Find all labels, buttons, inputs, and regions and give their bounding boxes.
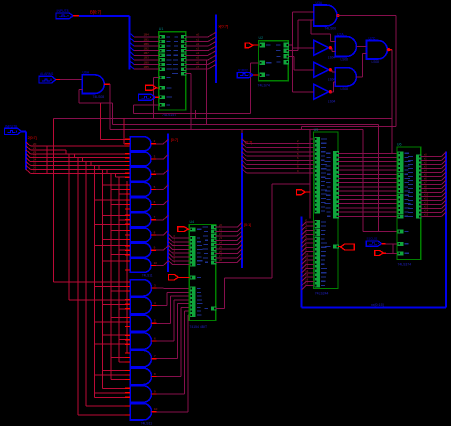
svg-text:y7: y7 — [219, 254, 222, 258]
label S[0:15] on bottom bus — [371, 303, 384, 307]
wire U1 pin to net n1 — [134, 105, 159, 114]
IC U1 74LS157 body and pins — [159, 32, 187, 110]
svg-text:S1R02: S1R02 — [238, 68, 248, 72]
label 74LS374 value — [398, 263, 412, 267]
svg-text:s14: s14 — [424, 208, 429, 212]
wire U1 pin out to net n4 — [186, 74, 191, 130]
svg-text:74LS11: 74LS11 — [142, 274, 153, 278]
wire net n1 horizontal — [134, 113, 251, 115]
label U6A — [83, 71, 90, 75]
wires U1 outputs to bus x[0:7] taps — [186, 32, 216, 69]
wire g1 input2 from net n2 — [124, 119, 130, 144]
wires upper gate outputs to bus taps — [151, 139, 168, 265]
wire U1 enable pin to net n2 — [154, 78, 159, 119]
wire g1 input from AND1 chain — [100, 103, 130, 139]
svg-text:1B4: 1B4 — [144, 33, 150, 37]
svg-text:B[0:7]: B[0:7] — [90, 9, 101, 14]
wire mesh horizontal branches to gate inputs — [94, 185, 130, 393]
wire ALARM port stub — [56, 79, 61, 81]
svg-text:1B0: 1B0 — [144, 60, 150, 64]
svg-text:ALARM1: ALARM1 — [40, 72, 54, 76]
svg-text:U5: U5 — [314, 128, 319, 132]
svg-text:y0: y0 — [219, 223, 222, 227]
label U7C — [369, 37, 376, 41]
label 74LS11 under gate column — [141, 422, 153, 426]
label y[0:7] top — [245, 141, 252, 145]
label above U6 clock port — [367, 237, 378, 241]
label 74LS244 value — [315, 292, 329, 296]
svg-text:x6: x6 — [196, 60, 200, 64]
label U4 — [190, 220, 195, 224]
svg-text:s11: s11 — [424, 196, 429, 200]
svg-text:x2: x2 — [196, 42, 200, 46]
wire to AND1 input 1 — [60, 79, 82, 81]
wire fan tie vertical — [46, 146, 48, 173]
svg-text:U6: U6 — [397, 142, 402, 146]
svg-text:LS08: LS08 — [341, 57, 349, 61]
wire vertical U2 Q2 to U3A input2 — [288, 20, 298, 51]
svg-text:27: 27 — [33, 169, 37, 173]
port red at U6 OC — [375, 250, 397, 255]
wire U8C input from vertical — [293, 91, 314, 93]
svg-text:x[0:7]: x[0:7] — [218, 23, 228, 28]
svg-text:y8: y8 — [219, 258, 222, 262]
svg-text:1B1: 1B1 — [144, 37, 150, 41]
svg-text:U3A: U3A — [316, 1, 323, 5]
label 74LS04 under U8B — [328, 78, 336, 82]
bus x[0:7] vertical — [215, 15, 217, 84]
svg-text:y2: y2 — [219, 232, 222, 236]
svg-text:74LS374: 74LS374 — [398, 263, 412, 267]
wire U7B input2 from U8C — [330, 82, 335, 92]
bus S[0:15] right vertical — [445, 151, 447, 307]
wire U7A output to U7C input1 — [356, 46, 366, 48]
bus y[0:7] vertical (middle) — [241, 133, 243, 268]
label 74LS04 under U8C — [328, 100, 336, 104]
svg-text:1B7: 1B7 — [144, 51, 150, 55]
wire net n4 feeds bus y top — [241, 130, 243, 133]
wires U6 outputs to bus S taps — [421, 152, 446, 216]
label 74LS00 under U3A — [325, 27, 337, 31]
wire U7C output to net n2 — [387, 50, 392, 154]
svg-text:10: 10 — [154, 407, 158, 411]
wire U3A input1 — [293, 11, 314, 13]
svg-text:U6A: U6A — [83, 71, 90, 75]
label x[0:7] — [218, 23, 228, 28]
svg-text:U7C: U7C — [369, 37, 376, 41]
inverter U8C — [314, 84, 332, 99]
svg-text:x0: x0 — [196, 33, 200, 37]
IC U4 74LS138 body and pins — [189, 224, 216, 320]
wire port SW1 stub — [73, 15, 79, 17]
svg-text:U4: U4 — [190, 220, 195, 224]
wire net n1 rise to U2 pin — [251, 63, 259, 114]
svg-text:x3: x3 — [196, 47, 200, 51]
svg-text:10: 10 — [154, 261, 158, 265]
port red at U4 gate pin — [168, 274, 189, 280]
bus B[0:7] vertical drop — [129, 16, 131, 70]
bus taps g0-g7 into U4 select inputs — [168, 234, 189, 265]
port red at U5 OE pin — [297, 190, 311, 195]
and gate U7B — [335, 68, 356, 87]
port red at U5 output pin (right) — [338, 244, 354, 250]
svg-text:74LS74: 74LS74 — [258, 84, 270, 88]
label B[0:7] — [90, 9, 101, 14]
svg-text:y1: y1 — [219, 227, 222, 231]
label U7A — [337, 33, 344, 37]
wire SET port stub — [253, 74, 259, 76]
and-gate column lower group U11A-U11H — [130, 280, 151, 420]
svg-text:1B3: 1B3 — [144, 56, 150, 60]
bus g[0:7] vertical (gate outputs) — [167, 134, 169, 273]
wire net n4 from AND1 output — [109, 84, 111, 129]
and gate U7C — [367, 41, 391, 60]
label U2 — [259, 36, 264, 40]
label U6 — [397, 142, 402, 146]
wire branch n3 to U6 special pin1 — [363, 125, 397, 232]
label 74LS11 under gate g9 — [142, 274, 153, 278]
wire U3A input2 — [298, 19, 314, 21]
wire U8B input — [288, 56, 314, 69]
wire U3A output long net — [337, 16, 396, 127]
label 74LS04 under U8A — [328, 56, 336, 60]
label U1 — [159, 27, 164, 31]
bus taps fan-out wires 2.0-2.7 with staircase jogs — [26, 142, 130, 177]
label 2[0:7] — [28, 136, 37, 140]
svg-text:LS08: LS08 — [372, 60, 380, 64]
wire net n4 horizontal — [110, 129, 363, 131]
svg-text:x5: x5 — [196, 56, 200, 60]
svg-text:U2: U2 — [259, 36, 264, 40]
wire U7B output to U7C input2 — [356, 54, 366, 77]
svg-text:x1: x1 — [196, 37, 200, 41]
label 74LS74 value — [258, 84, 270, 88]
label above DIP port — [5, 124, 17, 128]
bus taps S0-S15 into U5 lower inputs — [302, 218, 314, 290]
IC U2 74LS74 body and pins — [259, 41, 290, 81]
and-gate U6A — [82, 75, 104, 94]
svg-text:INPUT8: INPUT8 — [5, 124, 17, 128]
svg-text:2[0:7]: 2[0:7] — [28, 136, 37, 140]
svg-text:INPUT8: INPUT8 — [57, 9, 69, 13]
port blue at U1 strobe pin — [139, 94, 159, 100]
and-gate column upper group U10A-U10H — [130, 137, 151, 273]
wire net n2 drop from U1 bottom — [195, 110, 197, 119]
inverter U8B — [314, 62, 332, 77]
wire U2 D-pin to net n1 — [251, 62, 259, 64]
and gate U7A — [335, 37, 356, 57]
nand gate U3A — [314, 5, 340, 26]
wire net n2 horizontal — [54, 118, 392, 120]
label above port SW1 — [57, 9, 69, 13]
label 74LS08 under U7C — [372, 60, 380, 64]
svg-text:y6: y6 — [219, 249, 222, 253]
svg-text:74LS11: 74LS11 — [141, 422, 153, 426]
port SW1 input (top left) — [56, 13, 73, 19]
svg-text:x4: x4 — [196, 51, 200, 55]
label 74LS08 under U7A — [341, 57, 349, 61]
svg-text:74LS244: 74LS244 — [315, 292, 329, 296]
svg-text:1B5: 1B5 — [144, 65, 150, 69]
wire U7A input1 from U3A net — [311, 20, 335, 42]
svg-text:U1: U1 — [159, 27, 164, 31]
label U5 — [314, 128, 319, 132]
label U3A — [316, 1, 323, 5]
port red CLK input — [245, 43, 258, 48]
label y[0:7] bottom — [244, 223, 251, 227]
svg-text:[0:1]: [0:1] — [244, 223, 251, 227]
wire U7A input2 from U8A — [332, 48, 336, 52]
inverter U8A — [314, 40, 332, 55]
svg-text:LS04: LS04 — [328, 78, 336, 82]
svg-text:74154 4BIT: 74154 4BIT — [190, 325, 208, 329]
bus taps B0-B7 to U1 inputs — [130, 33, 159, 69]
svg-text:y5: y5 — [219, 245, 222, 249]
svg-text:74LS08: 74LS08 — [93, 95, 105, 99]
svg-text:U7A: U7A — [337, 33, 344, 37]
IC U5 74LS244 body and pins — [314, 132, 339, 289]
label 74LS138 value — [190, 325, 208, 329]
svg-text:xx[0:15]: xx[0:15] — [371, 303, 384, 307]
wire U7B input1 from U8B — [332, 70, 336, 72]
bus S[0:15] bottom horizontal — [302, 306, 447, 308]
bus S[0:15] left vertical — [301, 217, 303, 308]
label 74LS157 value — [162, 113, 176, 117]
label 74LS08 under U6A — [93, 95, 105, 99]
IC U6 74LS374 body and pins — [397, 147, 422, 260]
svg-text:S1CL02: S1CL02 — [367, 237, 378, 241]
wire net n5 horizontal to blue box bus — [302, 127, 396, 130]
label 74LS08 under U7B — [341, 87, 349, 91]
port red at U4 enable — [178, 227, 190, 232]
wire mesh verticals from fan staircase — [54, 119, 131, 416]
wire U4 lower output loop to U5 pin — [216, 130, 311, 309]
bus 2[0:7] bend — [22, 131, 27, 169]
wire U8A input — [293, 47, 314, 49]
port blue at U6 clock — [366, 241, 382, 246]
port blue SET input — [237, 72, 253, 77]
svg-text:s15: s15 — [424, 212, 429, 216]
svg-text:[0:7]: [0:7] — [171, 138, 178, 142]
svg-text:s13: s13 — [424, 204, 429, 208]
svg-text:s10: s10 — [424, 192, 429, 196]
port ALARM input (blue) — [39, 76, 56, 83]
svg-text:s12: s12 — [424, 200, 429, 204]
bus taps y0-y7 into U5 inputs — [242, 139, 314, 173]
label above ALARM port — [40, 72, 54, 76]
svg-text:74LS00: 74LS00 — [325, 27, 337, 31]
wires lower gate outputs nested to U4 pins — [152, 283, 190, 412]
port DIP input (middle left) — [5, 128, 22, 134]
svg-text:y4: y4 — [219, 241, 222, 245]
wire net n3 horizontal — [112, 124, 378, 126]
wire branch n4 drop to U6 special pin1 row — [362, 130, 364, 232]
bus B[0:7] horizontal — [79, 15, 130, 17]
label above SET port — [238, 68, 248, 72]
wire n4 drop to U5 pin1 — [310, 138, 313, 140]
wire net n3 junction from U1 output row — [206, 60, 208, 125]
svg-text:LS04: LS04 — [328, 100, 336, 104]
wires U4 outputs to bus y taps — [216, 223, 242, 263]
port red at U1 select pin — [146, 85, 159, 90]
svg-text:1B2: 1B2 — [144, 47, 150, 51]
wire AND1 output stub — [104, 83, 110, 85]
wire vertical U2 Q to U3A/inv3 — [288, 12, 292, 92]
svg-text:LS08: LS08 — [341, 87, 349, 91]
wires U5 outputs to U6 inputs — [338, 153, 397, 216]
label g[0:7] — [171, 138, 178, 142]
wire U6 clock port stub — [382, 244, 397, 254]
svg-text:x7: x7 — [196, 65, 200, 69]
svg-text:y3: y3 — [219, 236, 222, 240]
svg-text:LS04: LS04 — [328, 56, 336, 60]
wire net n3 link AND1 input2 — [79, 90, 112, 125]
svg-text:1B6: 1B6 — [144, 42, 150, 46]
